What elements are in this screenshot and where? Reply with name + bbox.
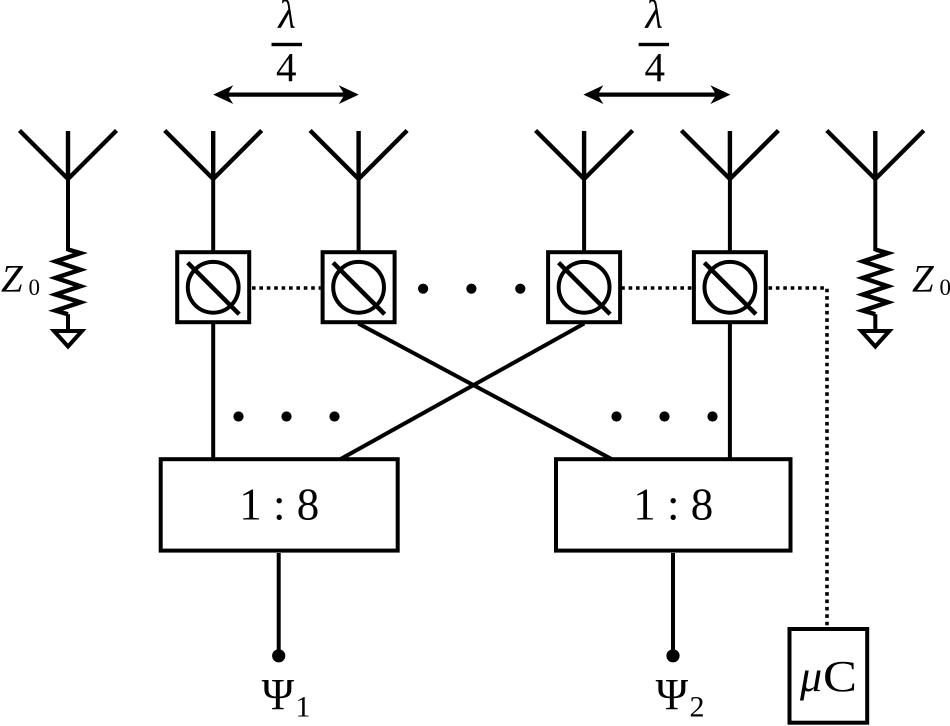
phase shifter PS1 [177, 252, 249, 322]
phase shifter PS2 [323, 252, 395, 322]
dotted control line PS4 to microcontroller [769, 288, 828, 627]
svg-text:μ: μ [799, 652, 822, 701]
label Z0 left [1, 258, 40, 301]
svg-text:Ψ: Ψ [262, 670, 295, 719]
wire antenna 3 feed [357, 175, 361, 252]
svg-text:1 : 8: 1 : 8 [239, 480, 319, 530]
wire PS4 to divider 2 [728, 322, 732, 458]
ellipsis dots above divider 2 [611, 411, 717, 421]
wire antenna 5 feed [728, 175, 732, 252]
svg-text:C: C [823, 652, 857, 701]
svg-text:1 : 8: 1 : 8 [633, 480, 713, 530]
svg-text:2: 2 [690, 691, 705, 724]
wire antenna 6 feed [873, 175, 877, 251]
svg-text:λ: λ [277, 0, 295, 37]
node terminal dot output 1 [272, 649, 285, 662]
label psi 2 [656, 670, 705, 724]
termination arrow left (to ground) [54, 331, 82, 347]
antenna 2 [165, 131, 262, 180]
dimension label lambda/4 right [639, 0, 670, 90]
microcontroller uC [790, 629, 868, 723]
antenna 6 (rightmost, terminated) [827, 131, 924, 180]
power divider 1:8 left (U1) [161, 459, 398, 550]
wire PS1 to divider 1 [211, 322, 215, 458]
wire divider 2 output [671, 553, 675, 651]
antenna 1 (leftmost, terminated) [20, 131, 117, 180]
resistor Z0 right (matched termination) [863, 250, 888, 332]
svg-text:1: 1 [296, 691, 311, 724]
svg-text:0: 0 [29, 275, 41, 300]
svg-text:4: 4 [645, 44, 666, 90]
antenna 4 [536, 131, 633, 180]
antenna 3 [310, 131, 407, 180]
dimension arrow right (lambda/4 span) [583, 85, 730, 104]
svg-text:λ: λ [645, 0, 663, 37]
phase shifter PS3 [548, 252, 620, 322]
wire antenna 2 feed [211, 175, 215, 252]
label Z0 right [912, 258, 950, 301]
svg-text:4: 4 [276, 44, 297, 90]
wire PS2 to divider 2 (crossing diagonal) [358, 324, 612, 460]
resistor Z0 left (matched termination) [56, 250, 81, 332]
ellipsis dots above divider 1 [233, 411, 339, 421]
svg-text:Ψ: Ψ [656, 670, 689, 719]
svg-text:Z: Z [912, 258, 935, 301]
wire divider 1 output [277, 553, 281, 651]
power divider 1:8 right (U2) [556, 459, 791, 550]
dimension arrow left (lambda/4 span) [213, 85, 359, 104]
svg-text:Z: Z [1, 258, 24, 301]
termination arrow right (to ground) [861, 331, 889, 347]
wire PS3 to divider 1 (crossing diagonal) [340, 324, 584, 460]
dotted control line PS3-PS4 [621, 286, 694, 290]
svg-text:0: 0 [940, 275, 950, 300]
wire antenna 4 feed [582, 175, 586, 252]
node terminal dot output 2 [666, 649, 679, 662]
wire antenna 1 feed [66, 175, 70, 251]
phase shifter PS4 [694, 252, 766, 322]
label psi 1 [262, 670, 311, 724]
dimension label lambda/4 left [272, 0, 303, 90]
ellipsis dots between PS2 and PS3 [418, 284, 525, 294]
antenna 5 [681, 131, 778, 180]
dotted control line PS1-PS2 [252, 286, 321, 290]
